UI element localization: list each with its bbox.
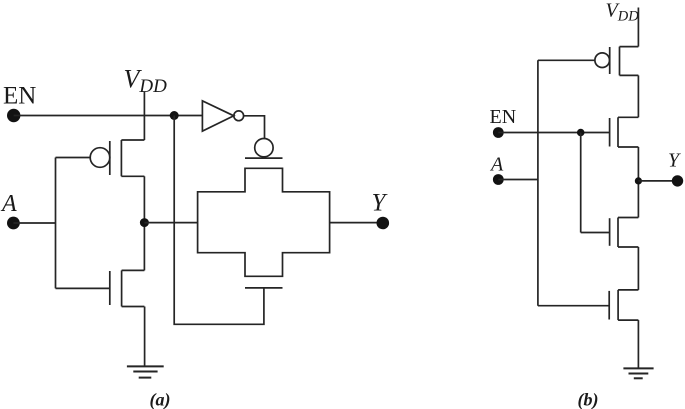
node A terminal (a)	[7, 217, 20, 230]
wire EN input (a)	[14, 115, 203, 117]
nmos N3 (b)	[609, 290, 638, 320]
wire inverter drain rail (a)	[143, 176, 145, 270]
node EN terminal (a)	[7, 109, 20, 122]
wire A input (b)	[498, 179, 538, 181]
wire Y output (b)	[638, 180, 677, 182]
wire TG input (a)	[144, 222, 197, 224]
nmos N1 (a)	[110, 270, 145, 306]
node Y terminal (a)	[377, 217, 390, 230]
node EN junction (b)	[577, 129, 585, 137]
transmission gate TG body (a)	[198, 168, 330, 276]
pmos P2 (b)	[595, 47, 639, 76]
node Y junction (b)	[635, 177, 642, 184]
svg-text:EN: EN	[490, 106, 517, 128]
node EN junction (a)	[170, 111, 179, 120]
svg-text:(a): (a)	[150, 389, 171, 409]
node Y terminal (b)	[672, 175, 683, 186]
wire P2 gate lead (b)	[538, 59, 595, 61]
wire EN input (b)	[498, 132, 609, 134]
wire TG output to Y (a)	[330, 222, 383, 224]
pmos P3 (b)	[610, 117, 639, 147]
node EN terminal (b)	[493, 127, 504, 138]
wire EN rail (b)	[580, 133, 582, 233]
wire EN rail to TG nmos gate (a)	[174, 116, 264, 325]
wire drain rail top (b)	[637, 75, 639, 117]
node A terminal (b)	[493, 174, 504, 185]
wire A gate rail (b)	[537, 60, 539, 305]
wire ground lead (b)	[637, 320, 639, 368]
svg-text:VDD: VDD	[124, 65, 168, 98]
svg-text:A: A	[0, 191, 17, 217]
svg-text:A: A	[489, 154, 504, 176]
TG pmos gate bar (a)	[245, 157, 283, 159]
svg-text:VDD: VDD	[606, 0, 640, 24]
wire A input (a)	[13, 222, 55, 224]
svg-text:EN: EN	[3, 83, 36, 110]
ground (a)	[127, 366, 164, 377]
wire VDD rail (b)	[637, 8, 639, 47]
wire P1 gate lead (a)	[56, 157, 91, 159]
pmos P1 (a)	[90, 140, 144, 176]
nmos N2 (b)	[610, 218, 639, 248]
svg-text:(b): (b)	[578, 389, 599, 409]
TG nmos gate bar (a)	[245, 287, 283, 289]
wire N1 gate lead (a)	[56, 287, 110, 289]
wire drain rail low (b)	[637, 247, 639, 290]
wire A gate rail (a)	[55, 158, 57, 289]
wire N3 gate lead (b)	[538, 305, 609, 307]
svg-text:Y: Y	[668, 150, 681, 172]
wire N2 gate lead (b)	[581, 232, 610, 234]
wire inverter output to TG pmos gate (a)	[244, 116, 265, 139]
wire drain rail mid (b)	[637, 147, 639, 218]
wire ground lead (a)	[144, 307, 146, 366]
svg-text:Y: Y	[372, 189, 389, 216]
ground (b)	[623, 368, 653, 378]
node inverter output junction (a)	[140, 218, 149, 227]
inverter U1 (a)	[202, 101, 243, 131]
wire VDD rail (a)	[143, 92, 145, 140]
TG pmos gate bubble (a)	[255, 139, 273, 157]
